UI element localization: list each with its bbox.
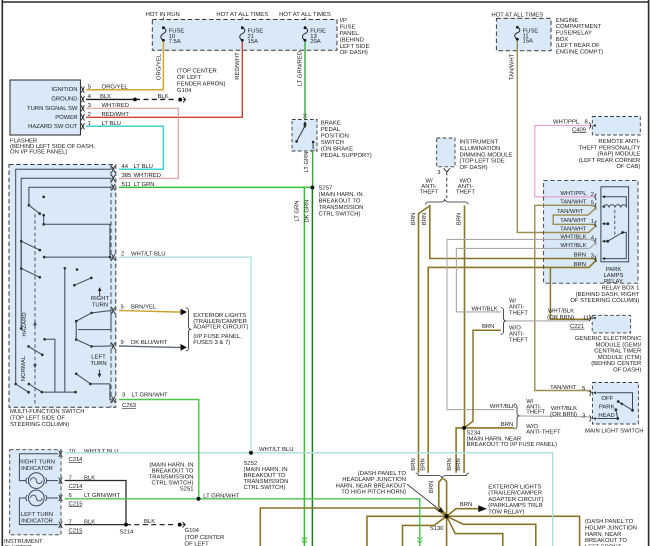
- svg-text:BRN: BRN: [574, 261, 586, 268]
- svg-text:(TRAILER/CAMPER: (TRAILER/CAMPER: [488, 490, 542, 497]
- svg-text:BRN: BRN: [410, 458, 417, 470]
- splice S251: [149, 462, 240, 501]
- svg-text:EXTERIOR LIGHTS: EXTERIOR LIGHTS: [488, 483, 541, 490]
- svg-text:ON I/P FUSE PANEL): ON I/P FUSE PANEL): [10, 148, 67, 155]
- wire ORG/YEL fuse10 to flasher: [86, 42, 163, 90]
- cluster pin 10: [59, 448, 119, 463]
- wire 511 LT GRN MFS to S257: [119, 186, 313, 188]
- svg-text:STEERING COLUMN): STEERING COLUMN): [10, 421, 69, 428]
- remote anti-theft personality (RAP) module: [579, 117, 641, 171]
- wire BRN S234 to GEM brace: [464, 323, 501, 428]
- wire WHT/BLK relay pin 4 to GEM: [456, 242, 596, 313]
- svg-text:9: 9: [121, 339, 124, 346]
- I/P fuse panel box: [152, 17, 369, 56]
- svg-text:MAIN LIGHT SWITCH: MAIN LIGHT SWITCH: [585, 428, 643, 435]
- fuse 13 20A: [302, 26, 326, 45]
- wire WHT/BLK (OR BRN) to GEM pin 11: [506, 308, 592, 330]
- svg-text:FUSES 3 & 7): FUSES 3 & 7): [193, 339, 230, 346]
- svg-text:ENGINE: ENGINE: [556, 17, 579, 24]
- MFS pin 385: [111, 172, 161, 182]
- MFS pin 2: [111, 251, 165, 261]
- svg-text:WHT/PPL: WHT/PPL: [560, 190, 587, 197]
- node HOT AT ALL TIMES (fuse 11): [491, 12, 543, 19]
- wire DK GRN S257 down: [304, 188, 313, 546]
- svg-text:S214: S214: [120, 529, 134, 536]
- svg-text:(LEFT REAR CORNER: (LEFT REAR CORNER: [579, 157, 640, 164]
- wire TAN/WHT fuse11 to relay pin 1: [509, 41, 597, 233]
- fuse 21 15A: [240, 26, 264, 45]
- svg-text:LEFT: LEFT: [91, 354, 106, 361]
- svg-text:BRN: BRN: [501, 421, 513, 428]
- svg-text:ADAPTER CIRCUIT): ADAPTER CIRCUIT): [193, 324, 248, 331]
- svg-text:COMPARTMENT: COMPARTMENT: [556, 23, 602, 30]
- svg-text:RIGHT: RIGHT: [91, 295, 110, 302]
- svg-text:IGNITION: IGNITION: [51, 86, 77, 93]
- anti-theft labels near GEM wires (left): [0, 0, 1, 1]
- svg-text:THEFT: THEFT: [509, 309, 528, 316]
- svg-text:11: 11: [583, 315, 589, 322]
- MFS bottom contacts: [14, 338, 76, 394]
- svg-text:LT GRN/RED: LT GRN/RED: [296, 51, 303, 86]
- svg-text:BREAKOUT TO: BREAKOUT TO: [244, 472, 286, 479]
- svg-text:LAMPS: LAMPS: [604, 272, 624, 279]
- svg-text:TURN: TURN: [90, 360, 106, 367]
- svg-text:(ON BRAKE: (ON BRAKE: [321, 146, 353, 153]
- svg-text:44: 44: [122, 163, 129, 170]
- MFS internal wire from pin 385: [20, 178, 112, 330]
- wire DK BLU/WHT to exterior lights: [119, 344, 187, 351]
- park lamps relay: [601, 187, 629, 262]
- wire LT BLU flasher to MFS pin 44: [86, 126, 163, 169]
- svg-text:W/: W/: [509, 297, 517, 304]
- svg-text:WHT/BLK: WHT/BLK: [560, 242, 586, 249]
- svg-text:7.5A: 7.5A: [169, 38, 181, 45]
- wire BLK flasher to G104: [86, 93, 177, 101]
- svg-text:LT GRN/WHT: LT GRN/WHT: [203, 492, 240, 499]
- svg-text:ILLUMINATION: ILLUMINATION: [460, 145, 501, 152]
- svg-text:SWITCH: SWITCH: [321, 139, 344, 146]
- svg-text:CTRL SWITCH): CTRL SWITCH): [319, 211, 361, 218]
- relay pin 4 label: [560, 233, 596, 244]
- MFS pin 44: [111, 163, 153, 173]
- MFS internal wire from pin 44: [16, 169, 112, 384]
- svg-text:(TOP CENTER: (TOP CENTER: [185, 534, 225, 541]
- wire LT GRN/RED fuse13 to brake switch: [296, 42, 306, 120]
- MFS contact to pin 9: [75, 338, 112, 348]
- wire RED/WHT fuse21 to flasher: [86, 42, 242, 118]
- svg-text:CTRL SWITCH): CTRL SWITCH): [244, 484, 286, 491]
- svg-text:HOT AT ALL TIMES: HOT AT ALL TIMES: [216, 11, 268, 18]
- MFS contact s1: [28, 196, 45, 215]
- svg-text:BRN: BRN: [421, 213, 428, 225]
- svg-text:(BEHIND: (BEHIND: [340, 36, 364, 43]
- splice S130: [430, 514, 449, 532]
- svg-text:WHT/LT BLU: WHT/LT BLU: [259, 446, 293, 453]
- svg-text:OF CAB): OF CAB): [616, 163, 640, 170]
- svg-text:G104: G104: [177, 87, 192, 94]
- MLS anti-theft brace: [514, 398, 561, 436]
- svg-text:BRAKE: BRAKE: [321, 120, 341, 127]
- svg-text:THEFT: THEFT: [509, 336, 528, 343]
- svg-text:LT BLU: LT BLU: [134, 163, 153, 170]
- wire BRN S130 right (y=516): [447, 516, 580, 546]
- svg-text:GROUND: GROUND: [51, 96, 77, 103]
- svg-text:TRANSMISSION: TRANSMISSION: [244, 478, 289, 485]
- svg-text:TURN SIGNAL SW: TURN SIGNAL SW: [27, 105, 78, 112]
- svg-text:ANTI-: ANTI-: [509, 303, 524, 310]
- wire WHT/LT BLU MFS pin 2 to S252: [119, 257, 251, 453]
- svg-text:CTRL SWITCH): CTRL SWITCH): [152, 480, 194, 487]
- svg-text:FUSE/RELAY: FUSE/RELAY: [556, 30, 592, 37]
- MFS left turn label: [90, 354, 106, 378]
- relay pin 2 label: [560, 190, 596, 200]
- svg-text:DK BLU/WHT: DK BLU/WHT: [131, 339, 168, 346]
- svg-text:BRN: BRN: [428, 481, 435, 493]
- wire BRN (W/ anti-theft) to relay pin 3: [421, 206, 597, 259]
- instrument cluster box: [4, 450, 61, 546]
- svg-text:HEAD: HEAD: [598, 412, 614, 419]
- svg-text:(OR BRN): (OR BRN): [550, 411, 577, 418]
- MLS pin 5 label: [550, 384, 586, 392]
- svg-text:MULTI-FUNCTION SWITCH: MULTI-FUNCTION SWITCH: [10, 408, 85, 415]
- wire LT GRN/WHT MFS pin 3 via S251: [65, 400, 423, 546]
- svg-text:TAN/WHT: TAN/WHT: [560, 198, 587, 205]
- svg-text:OF DASH): OF DASH): [613, 367, 641, 374]
- svg-text:BLK: BLK: [144, 518, 155, 525]
- svg-text:DIMMING MODULE: DIMMING MODULE: [460, 151, 513, 158]
- wire TAN/WHT relay pin 5 to main light switch: [535, 205, 596, 392]
- svg-text:TAN/WHT: TAN/WHT: [560, 217, 587, 224]
- svg-text:BREAKOUT TO: BREAKOUT TO: [585, 537, 627, 544]
- svg-text:WHT/BLK: WHT/BLK: [560, 233, 586, 240]
- svg-text:CENTRAL TIMER: CENTRAL TIMER: [594, 348, 641, 355]
- splice S234: [462, 426, 557, 448]
- svg-text:HARN, NEAR: HARN, NEAR: [585, 531, 621, 538]
- IIDM pin 3 fork: [437, 168, 450, 198]
- svg-text:TAN/WHT: TAN/WHT: [550, 384, 577, 391]
- cluster pin 7 upper: [59, 475, 96, 491]
- relay pin 5 label: [560, 198, 596, 209]
- svg-text:WHT/BLK: WHT/BLK: [490, 403, 516, 410]
- wire BRN S130 upper-left (y=508): [260, 508, 446, 546]
- MFS wire to pin 2: [43, 256, 112, 259]
- svg-text:THEFT PERSONALITY: THEFT PERSONALITY: [579, 144, 641, 151]
- svg-text:BRN: BRN: [574, 252, 586, 259]
- svg-text:BRN: BRN: [446, 458, 453, 470]
- svg-text:BRN: BRN: [460, 501, 472, 508]
- MFS contact s3: [20, 241, 41, 278]
- wire BRN S234 down to brace: [456, 428, 464, 473]
- svg-text:INDICATOR: INDICATOR: [21, 517, 53, 524]
- relay box 1: [544, 180, 640, 304]
- wire BLK cluster pin 7 to S214: [65, 481, 126, 525]
- svg-text:(DASH PANEL TO: (DASH PANEL TO: [585, 518, 634, 525]
- node HOT IN RUN: [146, 11, 180, 19]
- svg-text:INDICATOR: INDICATOR: [21, 465, 53, 472]
- MFS contact s2: [20, 240, 41, 252]
- svg-text:REMOTE ANTI-: REMOTE ANTI-: [598, 138, 640, 145]
- splice S252: [244, 451, 289, 491]
- right turn indicator lamp: [26, 473, 47, 489]
- flasher pin 5: [81, 83, 129, 92]
- svg-text:RELAY BOX 1: RELAY BOX 1: [602, 285, 640, 292]
- svg-text:S130: S130: [430, 525, 444, 532]
- node HOT AT ALL TIMES (fuse 13): [279, 11, 331, 19]
- svg-text:BRN/YEL: BRN/YEL: [131, 304, 157, 311]
- svg-text:PEDAL: PEDAL: [321, 126, 341, 133]
- relay pin 1 label: [560, 217, 596, 233]
- svg-text:ORG/YEL: ORG/YEL: [102, 83, 129, 90]
- svg-text:MODULE (CTM): MODULE (CTM): [598, 354, 642, 361]
- MFS contact to pin 5: [75, 311, 112, 340]
- svg-text:DK GRN: DK GRN: [304, 200, 311, 223]
- svg-text:BOX: BOX: [556, 36, 569, 43]
- svg-text:BREAKOUT TO: BREAKOUT TO: [152, 468, 194, 475]
- svg-text:RELAY: RELAY: [604, 278, 623, 285]
- wire BRN S130 down: [446, 516, 448, 546]
- wire BRN brace to S130: [428, 479, 447, 517]
- svg-text:(OR BRN): (OR BRN): [547, 314, 574, 321]
- cluster pin 7 lower: [59, 519, 96, 535]
- brake pedal position switch: [292, 120, 372, 160]
- svg-text:BRN: BRN: [482, 323, 494, 330]
- svg-text:(MAIN HARN. IN: (MAIN HARN. IN: [244, 466, 288, 473]
- ground G104 (top): [177, 68, 225, 103]
- MFS center column: [64, 267, 93, 392]
- svg-text:W/O: W/O: [509, 324, 521, 331]
- svg-text:(TOP LEFT SIDE: (TOP LEFT SIDE: [460, 158, 505, 165]
- svg-text:(LEFT REAR OF: (LEFT REAR OF: [556, 42, 600, 49]
- wire BRN/YEL to exterior lights: [119, 309, 187, 316]
- svg-text:TRANSMISSION: TRANSMISSION: [319, 204, 364, 211]
- fuse 11 15A: [515, 26, 539, 45]
- generic electronic module (GEM): [575, 315, 642, 374]
- svg-text:BRN: BRN: [410, 213, 417, 225]
- svg-text:OF LEFT: OF LEFT: [177, 74, 202, 81]
- wire BRN (W/O anti-theft) to S234: [455, 206, 464, 428]
- splice S257: [311, 185, 364, 218]
- svg-text:TOW RELAY): TOW RELAY): [488, 509, 524, 516]
- svg-text:HOT AT ALL TIMES: HOT AT ALL TIMES: [279, 11, 331, 18]
- svg-text:ANTI-THEFT: ANTI-THEFT: [526, 429, 561, 436]
- svg-text:ENGINE COMPT): ENGINE COMPT): [556, 48, 603, 55]
- svg-text:BRN: BRN: [455, 213, 462, 225]
- svg-text:PEDAL SUPPORT): PEDAL SUPPORT): [321, 152, 372, 159]
- MFS pin 511: [111, 181, 154, 191]
- splice dots overlay: [124, 98, 466, 527]
- relay pin 3 labels: [574, 252, 597, 268]
- wire BLK cluster pin 7 lower to S214 and G104: [65, 518, 176, 536]
- svg-text:HARN, NEAR BREAKOUT: HARN, NEAR BREAKOUT: [336, 482, 407, 489]
- svg-text:OF DASH): OF DASH): [340, 49, 368, 56]
- node HOT AT ALL TIMES (fuse 21): [216, 11, 268, 19]
- fuse 10 7.5A: [161, 26, 185, 45]
- GEM anti-theft brace: [501, 297, 529, 343]
- svg-text:G104: G104: [185, 527, 200, 534]
- svg-text:ADAPTER CIRCUIT): ADAPTER CIRCUIT): [488, 496, 543, 503]
- wire BRN S130 left (y=516): [367, 516, 447, 546]
- svg-text:HOT IN RUN: HOT IN RUN: [146, 11, 180, 18]
- svg-text:LT GRN/WHT: LT GRN/WHT: [132, 392, 169, 399]
- svg-text:385: 385: [122, 172, 133, 179]
- exterior lights annotation (S130): [488, 483, 543, 515]
- svg-text:RED/WHT: RED/WHT: [234, 52, 241, 80]
- svg-text:LEFT TURN: LEFT TURN: [21, 511, 53, 518]
- svg-text:TAN/WHT: TAN/WHT: [560, 226, 587, 233]
- svg-text:10: 10: [69, 448, 76, 455]
- svg-text:NORMAL: NORMAL: [20, 355, 27, 381]
- relay box 1 fill: [544, 180, 638, 283]
- svg-text:INSTRUMENT: INSTRUMENT: [4, 538, 43, 545]
- svg-text:(DASH PANEL TO: (DASH PANEL TO: [358, 470, 407, 477]
- wire WHT/BLK (OR BRN) to MLS pin 3: [519, 405, 592, 420]
- wire BRN relay pin3 branch to GEM: [550, 267, 592, 319]
- wire LT GRN S257 down: [293, 187, 307, 546]
- svg-text:LT GRN: LT GRN: [303, 151, 310, 172]
- svg-text:OF DASH): OF DASH): [460, 164, 488, 171]
- svg-text:THEFT: THEFT: [456, 188, 475, 195]
- svg-text:TO HIGH PITCH HORN): TO HIGH PITCH HORN): [341, 489, 406, 496]
- svg-text:RED/WHT: RED/WHT: [102, 111, 130, 118]
- bottom right annotation: [585, 518, 637, 546]
- instrument illumination dimming module: [437, 138, 513, 171]
- svg-text:(PARKLAMPS TRLR: (PARKLAMPS TRLR: [488, 502, 542, 509]
- MFS pin 5: [111, 304, 157, 314]
- svg-text:(TOP CENTER: (TOP CENTER: [177, 68, 217, 75]
- svg-text:1: 1: [591, 218, 594, 225]
- engine compartment fuse/relay box: [496, 17, 603, 56]
- svg-text:S251: S251: [180, 486, 194, 493]
- wire LT GRN brake switch to S257: [303, 151, 312, 188]
- svg-text:MODULE (GEM)/: MODULE (GEM)/: [595, 341, 641, 348]
- svg-text:20A: 20A: [310, 38, 321, 45]
- svg-text:WHT/RED: WHT/RED: [134, 172, 162, 179]
- svg-text:THEFT: THEFT: [526, 409, 545, 416]
- wire WHT/PPL RAP to relay pin 2: [535, 119, 596, 197]
- wire BRN S130 arrow to exterior lights: [447, 501, 487, 516]
- svg-text:POWER: POWER: [55, 114, 77, 121]
- anti-theft option labels (top): [420, 178, 476, 205]
- exterior lights annotation (MFS): [186, 308, 249, 351]
- svg-text:HAZARD: HAZARD: [21, 312, 28, 336]
- MFS internal wire from pin 511: [29, 187, 112, 205]
- svg-text:LEFT SIDE: LEFT SIDE: [340, 43, 370, 50]
- cluster pin 6: [59, 492, 121, 507]
- svg-text:GENERIC ELECTRONIC: GENERIC ELECTRONIC: [575, 335, 642, 342]
- wire BRN S130 steep (y=534): [447, 516, 503, 546]
- svg-text:BRN: BRN: [420, 458, 427, 470]
- svg-text:(BEHIND CENTER: (BEHIND CENTER: [591, 360, 641, 367]
- svg-text:OF LEFT: OF LEFT: [185, 540, 210, 546]
- wire BRN S130 down-left (y=525): [403, 516, 447, 546]
- svg-text:(MAIN HARN. IN: (MAIN HARN. IN: [319, 191, 363, 198]
- flasher pin 4: [81, 93, 111, 102]
- ground G104 (bottom): [178, 522, 233, 546]
- flasher pin 3: [81, 102, 129, 111]
- main light switch: [585, 383, 643, 435]
- wire WHT/LT BLU cluster to S252 and down: [65, 446, 553, 546]
- svg-text:HAZARD SW OUT: HAZARD SW OUT: [28, 123, 78, 130]
- svg-text:OFF: OFF: [601, 395, 613, 402]
- svg-text:2: 2: [591, 191, 594, 198]
- svg-text:2: 2: [88, 111, 91, 118]
- svg-text:WHT/BLK: WHT/BLK: [548, 308, 574, 315]
- svg-text:TAN/WHT: TAN/WHT: [509, 53, 516, 80]
- svg-text:LT GRN/WHT: LT GRN/WHT: [84, 492, 121, 499]
- svg-text:BLK: BLK: [158, 93, 169, 100]
- svg-text:S257: S257: [319, 185, 333, 192]
- svg-text:FUSE: FUSE: [340, 24, 356, 31]
- svg-text:LT GRN: LT GRN: [293, 200, 300, 221]
- svg-text:PANEL: PANEL: [340, 30, 360, 37]
- svg-text:RIGHT TURN: RIGHT TURN: [19, 459, 55, 466]
- wire BRN S130 down-right (y=524): [447, 516, 536, 546]
- cluster internal wiring: [19, 454, 58, 525]
- flasher pin 1: [81, 120, 121, 129]
- svg-text:(MAIN HARN. IN: (MAIN HARN. IN: [149, 462, 193, 469]
- wire BRN S234 to MLS brace: [464, 421, 514, 428]
- flasher pin 2: [81, 111, 129, 120]
- svg-text:S252: S252: [244, 460, 258, 467]
- svg-text:15A: 15A: [523, 38, 534, 45]
- svg-text:INSTRUMENT: INSTRUMENT: [460, 139, 499, 146]
- svg-text:(TOP LEFT SIDE OF: (TOP LEFT SIDE OF: [10, 415, 65, 422]
- svg-text:I/P: I/P: [340, 17, 347, 24]
- svg-text:TAN/WHT: TAN/WHT: [557, 208, 584, 215]
- left turn indicator lamp: [26, 490, 47, 506]
- svg-text:WHT/PPL: WHT/PPL: [553, 119, 580, 126]
- headlamp junction annotation: [336, 470, 444, 513]
- wire BRN (W/ anti-theft) to S130: [410, 207, 429, 473]
- svg-text:THEFT: THEFT: [420, 188, 439, 195]
- svg-text:ORG/YEL: ORG/YEL: [155, 53, 162, 80]
- wire WHT/BLK relay pin 4 to MLS: [447, 239, 596, 410]
- BRN gathering brace above S130: [410, 458, 469, 478]
- svg-text:TURN: TURN: [92, 302, 108, 309]
- wire BRN relay pin 3 second: [428, 260, 596, 473]
- MFS hazard linkage dashed: [20, 214, 37, 406]
- svg-text:HEADLAMP JUNCTION: HEADLAMP JUNCTION: [342, 476, 406, 483]
- svg-text:HDLMP JUNCTION: HDLMP JUNCTION: [585, 525, 637, 532]
- svg-text:FENDER APRON): FENDER APRON): [177, 81, 225, 88]
- MFS contact to pin 3: [75, 373, 112, 400]
- svg-text:PARK: PARK: [599, 404, 615, 411]
- svg-text:POSITION: POSITION: [321, 133, 349, 140]
- MFS pin 3: [111, 392, 168, 410]
- svg-text:(RAP) MODULE: (RAP) MODULE: [597, 151, 640, 158]
- wire WHT/RED flasher to MFS pin 385: [86, 108, 178, 178]
- svg-text:15A: 15A: [248, 38, 259, 45]
- svg-text:ANTI-: ANTI-: [509, 330, 524, 337]
- svg-text:BREAKOUT TO: BREAKOUT TO: [319, 198, 361, 205]
- svg-text:HOT AT ALL TIMES: HOT AT ALL TIMES: [491, 12, 543, 19]
- svg-text:PARK: PARK: [606, 266, 622, 273]
- svg-text:WHT/LT BLU: WHT/LT BLU: [84, 448, 118, 455]
- svg-text:WHT/BLK: WHT/BLK: [472, 305, 498, 312]
- multi-function switch box: [9, 165, 116, 429]
- wire TAN/WHT jumper pin 5 to pin 1: [553, 207, 596, 225]
- svg-text:BREAKOUT TO I/P FUSE PANEL): BREAKOUT TO I/P FUSE PANEL): [467, 441, 557, 448]
- svg-text:TRANSMISSION: TRANSMISSION: [149, 474, 194, 481]
- MFS pin 9: [111, 339, 167, 349]
- svg-text:OF STEERING COLUMN): OF STEERING COLUMN): [570, 297, 639, 304]
- MFS right turn label: [91, 287, 110, 309]
- svg-text:WHT/BLK: WHT/BLK: [551, 405, 577, 412]
- svg-text:(BEHIND DASH, RIGHT: (BEHIND DASH, RIGHT: [576, 291, 640, 298]
- svg-text:BRN: BRN: [455, 458, 462, 470]
- flasher: [10, 80, 95, 155]
- MFS contact column A: [42, 214, 111, 259]
